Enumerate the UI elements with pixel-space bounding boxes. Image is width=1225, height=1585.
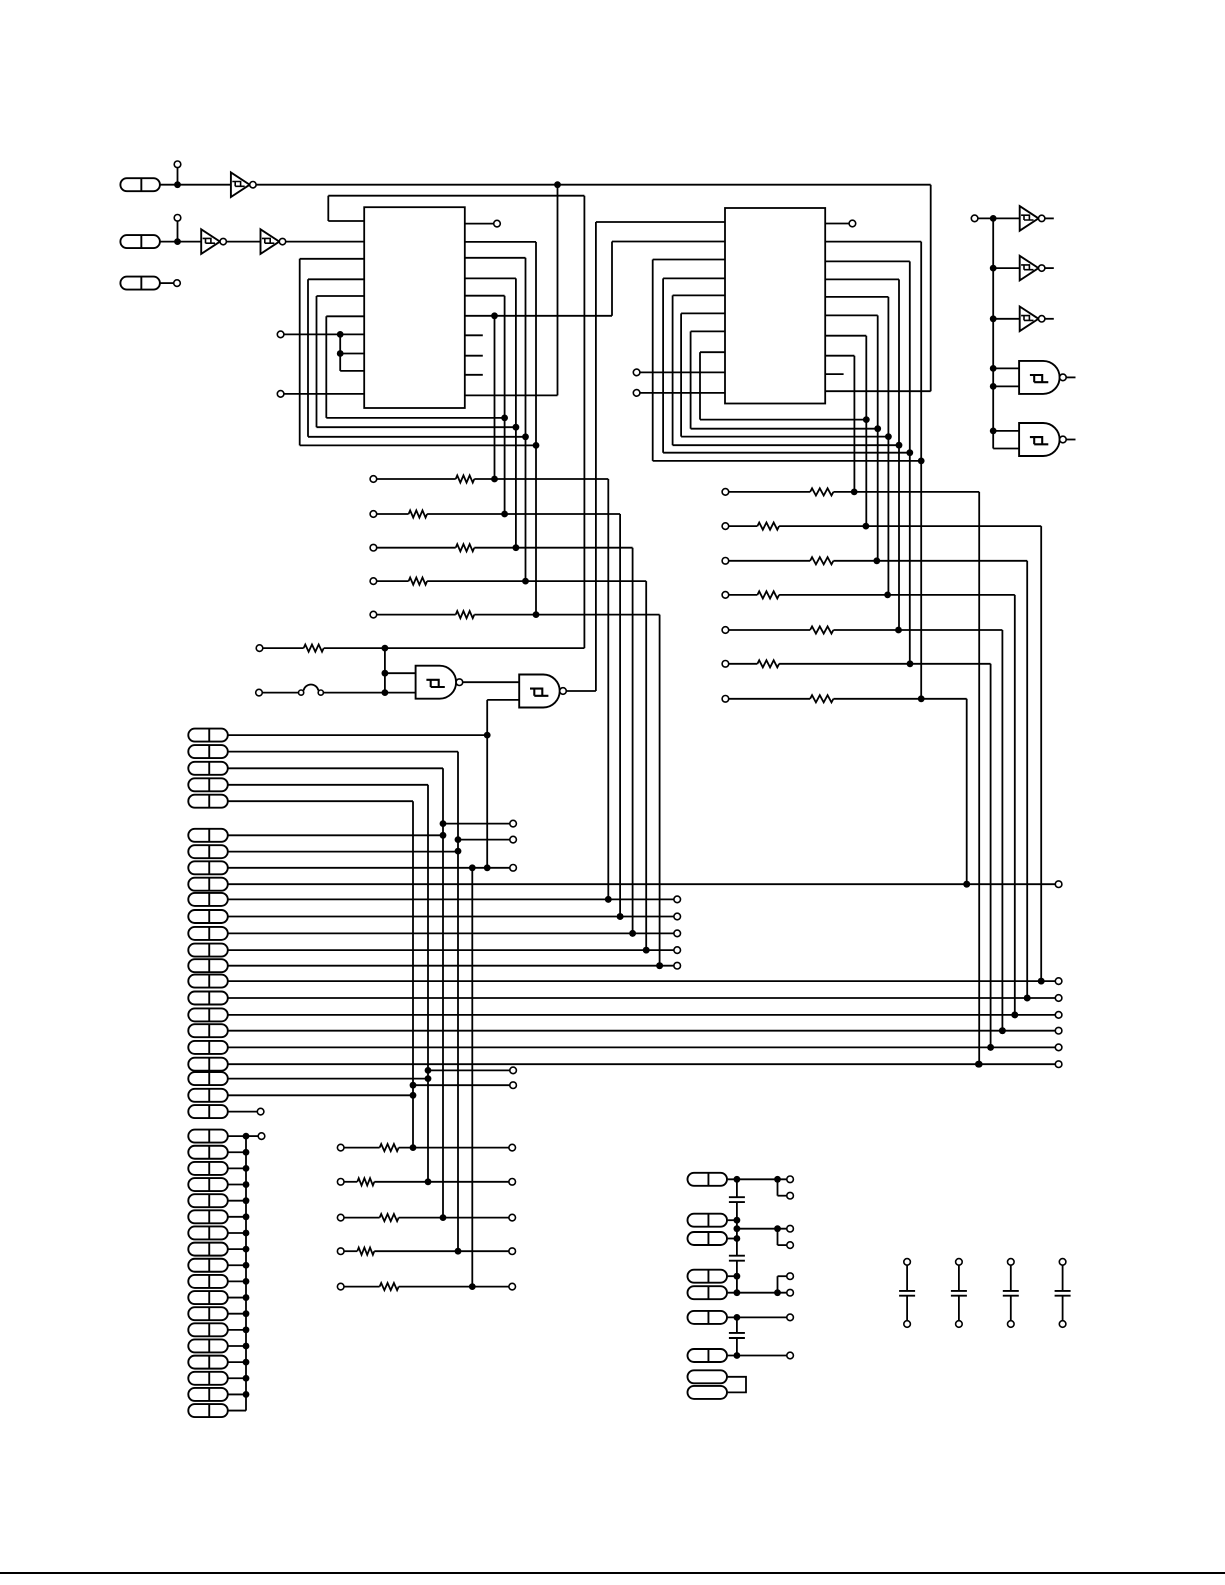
wire pair2 row [737, 1228, 787, 1230]
wire S17 to bus [228, 1393, 246, 1395]
terminal pair1 top [787, 1176, 794, 1183]
wire U1A output net1 top [256, 184, 931, 186]
junction Q3/x472 [469, 864, 476, 871]
wire input to U3A [978, 217, 1020, 219]
junction bus/U4A inA [990, 365, 997, 372]
wire row1 to staircase [474, 478, 608, 480]
wire S1 to bus [228, 1135, 246, 1137]
wire IC2 right pin y241 [825, 241, 921, 243]
wire rrow5 lead-in [729, 629, 810, 631]
junction IC2 loop y460 [918, 458, 925, 465]
wire loop bottom y437 [308, 436, 526, 438]
nand gate U4A [1019, 361, 1060, 394]
connector S12 [188, 1307, 228, 1320]
wire U2A to U2B [226, 241, 260, 243]
terminal stub4 [510, 1067, 517, 1074]
wire rrow4 to staircase [779, 594, 1015, 596]
terminal mid row3 left [337, 1214, 344, 1221]
wire IC1 right pin y242 [465, 241, 536, 243]
terminal left bank row4 [370, 578, 377, 585]
wire net1 branch into IC1 right pin [465, 394, 558, 396]
wire IC2 left pin y295 [673, 294, 725, 296]
terminal mid row2 right [509, 1179, 516, 1186]
connector S10 [188, 1275, 228, 1288]
pin stub IC2 right y374 [825, 373, 843, 375]
capacitor C5 [951, 1290, 967, 1292]
wire input bus x993 [992, 218, 994, 448]
terminal C4 top [904, 1259, 911, 1266]
terminal right y1064 [1055, 1061, 1062, 1068]
wire G2 inputB [487, 699, 519, 701]
junction Q10/staircase [1038, 978, 1045, 985]
wire S7 to bus [228, 1232, 246, 1234]
resistor R7 [810, 488, 833, 495]
junction staircase rrow6 bottom [987, 1044, 994, 1051]
terminal Q18 [257, 1108, 264, 1115]
wire IC2 loop bottom y428 [691, 428, 878, 430]
wire rrow6 lead-in [729, 663, 758, 665]
connector Q13 [188, 1024, 228, 1037]
wire loop bottom y427 [317, 426, 516, 428]
wire staircase x1027 down [1026, 561, 1028, 998]
junction staircase row5 bottom [656, 962, 663, 969]
terminal pair1 bottom [787, 1192, 794, 1199]
wire Q7 to middle terminal [228, 932, 674, 934]
connector S17 [188, 1388, 228, 1401]
junction bus S11 [243, 1294, 250, 1301]
junction y316/bus x494 [491, 312, 498, 319]
connector K1 [688, 1173, 728, 1186]
wire staircase x632 down [632, 548, 634, 934]
wire IC2 loop bottom y419 [700, 419, 866, 421]
wire C7 bottom lead [1062, 1296, 1064, 1321]
wire IC2 right bus x866 [865, 336, 867, 526]
terminal mid row2 left [337, 1179, 344, 1186]
wire J1 to U1A [160, 184, 231, 186]
wire S16 to bus [228, 1377, 246, 1379]
schmitt inverter U3B [1020, 256, 1039, 281]
wire Q16 [228, 1078, 428, 1080]
terminal middle y899 [674, 896, 681, 903]
terminal NAND row B [256, 689, 263, 696]
junction x487/pill row [484, 732, 491, 739]
junction bus S14 [243, 1343, 250, 1350]
junction K5 tap [734, 1289, 741, 1296]
resistor R2 [409, 510, 428, 517]
connector Q6 [188, 910, 228, 923]
wire U3A output stub [1045, 217, 1054, 219]
wire IC2 left loop x690 [690, 331, 692, 428]
nand gate U4B [1019, 423, 1060, 456]
junction bus x494 row1 [491, 476, 498, 483]
wire rrow7 to staircase [833, 698, 966, 700]
connector Q16 [188, 1072, 228, 1085]
junction bus S16 [243, 1375, 250, 1382]
wire capbus seg3 [736, 1239, 738, 1256]
terminal IC1 left A [277, 331, 284, 338]
resistor R15 [357, 1178, 374, 1185]
connector S18 [188, 1404, 228, 1417]
terminal right y1030 [1055, 1027, 1062, 1034]
junction terminalA net2 [337, 350, 344, 357]
connector P2 [188, 745, 228, 758]
connector Q5 [188, 893, 228, 906]
wire U4A inputB [993, 385, 1019, 387]
terminal top right input [971, 215, 978, 222]
wire IC2 right bus x921 [920, 242, 922, 699]
wire S10 to bus [228, 1280, 246, 1282]
terminal C7 bottom [1059, 1321, 1066, 1328]
wire IC1 left pin y279 [308, 278, 364, 280]
connector S8 [188, 1243, 228, 1256]
junction loop/busB [513, 424, 520, 431]
junction x458 mrow4 [455, 1248, 462, 1255]
terminal pair3 top [787, 1273, 794, 1280]
wire Q5 to middle terminal [228, 898, 674, 900]
junction rrow1 bus [851, 489, 858, 496]
terminal IC1 top right [494, 220, 501, 227]
wire net1 into IC2 right pin [825, 390, 931, 392]
wire S5 to bus [228, 1200, 246, 1202]
terminal K6 [787, 1314, 794, 1321]
wire IC2 left loop x700 [699, 352, 701, 419]
junction J1 net [174, 181, 181, 188]
wire loop left inner1 [325, 316, 327, 418]
wire cap3 lead bottom [736, 1338, 738, 1356]
wire IC1 left pin y371 [340, 370, 364, 372]
connector Q2 [188, 845, 228, 858]
wire IC2 right pin y261 [825, 260, 910, 262]
wire terminal to IC2 pin y393 [640, 392, 725, 394]
pin stub IC1 right y356 [465, 355, 483, 357]
terminal right bank row6 [722, 661, 729, 668]
resistor R18 [380, 1283, 399, 1290]
wire S13 to bus [228, 1329, 246, 1331]
connector P1 [188, 729, 228, 742]
wire Q12 long to right terminal [228, 1014, 1056, 1016]
junction K2 tap [734, 1217, 741, 1224]
wire rowA to bus x584 [324, 647, 585, 649]
wire IC2 right pin y296 [825, 296, 888, 298]
wire capbus seg1 [736, 1179, 738, 1197]
junction staircase rrow3 bottom [1024, 995, 1031, 1002]
schmitt inverter U3C [1020, 307, 1039, 332]
junction G1 inputA tap [382, 670, 389, 677]
resistor R6 [304, 645, 324, 652]
junction rrow5 bus [895, 627, 902, 634]
terminal middle y965 [674, 962, 681, 969]
wire S6 to bus [228, 1216, 246, 1218]
terminal left bank row5 [370, 611, 377, 618]
resistor R4 [409, 578, 428, 585]
wire rrow1 to staircase [833, 491, 979, 493]
wire U4B inputA [993, 430, 1019, 432]
wire rrow4 lead-in [729, 594, 758, 596]
junction K3 tap [734, 1235, 741, 1242]
wire bus down x584 [583, 196, 585, 648]
wire Q11 long to right terminal [228, 997, 1056, 999]
wire bus x596 up to IC2 [595, 222, 597, 691]
wire capbus seg2 [736, 1202, 738, 1238]
junction staircase row3 bottom [629, 930, 636, 937]
resistor R12 [757, 660, 779, 667]
junction bus S6 [243, 1213, 250, 1220]
junction x428 mrow2 [425, 1178, 432, 1185]
junction bus x505 row2 [501, 511, 508, 518]
junction x443 stub1 [440, 820, 447, 827]
wire rrow2 lead-in [729, 525, 758, 527]
wire U2B output to IC1 left pin [286, 241, 365, 243]
pin stub IC1 right y375 [465, 374, 483, 376]
fuse F1 [299, 690, 304, 695]
terminal right y884 [1055, 881, 1062, 888]
junction Q9/staircase [656, 962, 663, 969]
wire K3 [728, 1238, 737, 1240]
connector P4 [188, 778, 228, 791]
wire mrow2 to right terminal [374, 1181, 509, 1183]
wire rrow6 to staircase [779, 663, 991, 665]
junction x458 stub2 [455, 836, 462, 843]
wire S9 to bus [228, 1264, 246, 1266]
wire rrow5 to staircase [833, 629, 1002, 631]
wire staircase x646 down [645, 581, 647, 950]
wire S18 to bus [228, 1410, 246, 1412]
wire loop bottom y418 [326, 417, 504, 419]
schmitt inverter U3A [1020, 206, 1039, 231]
junction bus S5 [243, 1197, 250, 1204]
wire J3 stub [160, 282, 174, 284]
connector Q12 [188, 1008, 228, 1021]
wire IC2 right pin y335 [825, 335, 866, 337]
wire IC2 left loop x672 [672, 295, 674, 445]
terminal IC2 top right [849, 220, 856, 227]
junction bus S10 [243, 1278, 250, 1285]
wire stub up J1 [177, 168, 179, 185]
wire IC2 left pin y278 [663, 277, 725, 279]
wire x487 down [486, 700, 488, 868]
terminal pair3 bottom [787, 1289, 794, 1296]
resistor R13 [810, 695, 833, 702]
wire Q15 long to right terminal [228, 1063, 1056, 1065]
wire common bus x246 [245, 1136, 247, 1410]
wire mrow2 lead-in [344, 1181, 357, 1183]
terminal C6 bottom [1008, 1321, 1015, 1328]
wire Q10 long to right terminal [228, 980, 1056, 982]
junction Q8/staircase [643, 947, 650, 954]
wire U3C output stub [1045, 318, 1054, 320]
junction x472 mrow5 [469, 1283, 476, 1290]
wire up x612 to IC2 [611, 242, 613, 316]
wire IC2 right pin y279 [825, 278, 899, 280]
wire S4 to bus [228, 1184, 246, 1186]
junction Q11/staircase [1024, 995, 1031, 1002]
junction x428 stub4 [425, 1067, 432, 1074]
terminal K7 [787, 1352, 794, 1359]
wire K1 row [728, 1178, 787, 1180]
wire stub2 [458, 839, 510, 841]
junction K7/cap3 [734, 1352, 741, 1359]
wire mrow3 to right terminal [399, 1217, 509, 1219]
terminal left bank row3 [370, 544, 377, 551]
terminal above J2 [174, 215, 181, 222]
wire bus x472 down [471, 868, 473, 1287]
terminal right bank row3 [722, 558, 729, 565]
terminal stub2 [510, 836, 517, 843]
terminal mid row5 right [509, 1283, 516, 1290]
junction Q12/staircase [1011, 1012, 1018, 1019]
junction rowB/vertical [382, 689, 389, 696]
wire terminalA to IC1 pin y334 [284, 333, 364, 335]
connector Q9 [188, 959, 228, 972]
wire K7 row [728, 1355, 787, 1357]
wire loop over IC1 top [328, 195, 584, 197]
junction Q6/staircase [617, 913, 624, 920]
connector S2 [188, 1146, 228, 1159]
junction net1/IC1 pin [554, 181, 561, 188]
connector Q10 [188, 975, 228, 988]
junction x413 rowB17 [410, 1092, 417, 1099]
wire Q3 to stub terminal [228, 867, 510, 869]
wire P3 to x443 [228, 767, 443, 769]
terminal middle y916 [674, 913, 681, 920]
terminal IC1 left B [277, 391, 284, 398]
junction x413 stub5 [410, 1082, 417, 1089]
wire bus x525 down [525, 258, 527, 581]
connector J1 [120, 178, 159, 191]
connector K7 [688, 1349, 728, 1362]
wire P1 to x487 [228, 734, 487, 736]
connector S6 [188, 1210, 228, 1223]
wire U4A output stub [1066, 376, 1075, 378]
wire K5 row [728, 1292, 787, 1294]
wire G1 inputA [385, 672, 416, 674]
wire G1 out to G2 inA [463, 681, 520, 683]
terminal stub3 [510, 865, 517, 872]
wire S11 to bus [228, 1297, 246, 1299]
terminal middle y933 [674, 930, 681, 937]
junction rowA/G1 input [382, 645, 389, 652]
connector S5 [188, 1194, 228, 1207]
terminal right y998 [1055, 995, 1062, 1002]
terminal middle y950 [674, 947, 681, 954]
wire pair2 L vertical [777, 1229, 779, 1245]
junction x443 rowB1 [440, 832, 447, 839]
wire IC1 left pin y316 [326, 315, 364, 317]
wire mrow1 lead-in [344, 1147, 380, 1149]
terminal pair2 bottom [787, 1242, 794, 1249]
wire Q14 long to right terminal [228, 1046, 1056, 1048]
terminal mid row1 right [509, 1144, 516, 1151]
wire down to G1 inputs [384, 648, 386, 693]
wire mrow5 lead-in [344, 1286, 380, 1288]
terminal right bank row2 [722, 523, 729, 530]
wire IC2 left pin y331 [691, 330, 725, 332]
connector P5 [188, 795, 228, 808]
wire IC2 loop bottom y452 [663, 452, 910, 454]
wire bus x536 down [535, 242, 537, 615]
junction staircase row2 bottom [617, 913, 624, 920]
wire C7 top lead [1062, 1265, 1064, 1291]
wire mrow4 lead-in [344, 1250, 357, 1252]
junction x428 rowB16 [425, 1075, 432, 1082]
wire IC1 right pin y278 [465, 277, 516, 279]
junction Q5/staircase [605, 896, 612, 903]
wire IC1 left pin y259 [300, 258, 365, 260]
wire stub1 [443, 823, 510, 825]
nand gate G1 [416, 666, 457, 699]
wire rrow3 lead-in [729, 560, 810, 562]
junction bus S2 [243, 1149, 250, 1156]
junction bus S9 [243, 1262, 250, 1269]
junction K1/pair1 [774, 1176, 781, 1183]
junction staircase row1 bottom [605, 896, 612, 903]
wire U4B output stub [1066, 439, 1075, 441]
junction bus x536 row5 [533, 611, 540, 618]
wire IC2 left loop x681 [680, 313, 682, 436]
wire P5 to x413 [228, 800, 413, 802]
connector S7 [188, 1226, 228, 1239]
junction staircase rrow7 bottom [963, 881, 970, 888]
wire stub4 [428, 1069, 510, 1071]
wire row1 lead-in [377, 478, 456, 480]
wire C5 bottom lead [958, 1296, 960, 1321]
wire J2 to U2A [160, 241, 201, 243]
resistor R5 [456, 611, 475, 618]
junction x458 rowB2 [455, 848, 462, 855]
junction K6/cap3 [734, 1314, 741, 1321]
junction K1/capbus [734, 1176, 741, 1183]
connector K3 [688, 1232, 728, 1245]
junction bus/U3C [990, 315, 997, 322]
wire bus x428 down [427, 785, 429, 1182]
connector K2 [688, 1214, 728, 1227]
junction staircase rrow4 bottom [1011, 1012, 1018, 1019]
terminal J3 [174, 280, 181, 287]
terminal mid row3 right [509, 1214, 516, 1221]
wire IC2 left loop x652 [652, 260, 654, 461]
connector Q15 [188, 1058, 228, 1071]
wire row5 to staircase [474, 614, 659, 616]
junction bus S4 [243, 1181, 250, 1188]
wire staircase x979 down [978, 492, 980, 1064]
junction bus S15 [243, 1359, 250, 1366]
connector S9 [188, 1259, 228, 1272]
wire bus x505 down [504, 296, 506, 514]
wire terminalA vertical [339, 334, 341, 371]
wire U3B output stub [1045, 267, 1054, 269]
terminal mid row4 right [509, 1248, 516, 1255]
junction rrow2 bus [863, 523, 870, 530]
wire terminal to IC2 pin y372 [640, 371, 725, 373]
wire rrow2 to staircase [779, 525, 1041, 527]
junction x413 mrow1 [410, 1144, 417, 1151]
wire IC2 right pin y224 stub [825, 223, 849, 225]
wire IC1 right pin y296 [465, 295, 505, 297]
wire IC2 left pin y259 [653, 259, 725, 261]
wire loop left inner3 [307, 279, 309, 437]
junction x443 mrow3 [440, 1214, 447, 1221]
terminal above J1 [174, 161, 181, 168]
terminal stub5 [510, 1082, 517, 1089]
wire Q17 [228, 1094, 413, 1096]
junction bus x516 row3 [513, 544, 520, 551]
resistor R17 [357, 1248, 374, 1255]
wire pair3 L vertical [777, 1276, 779, 1293]
terminal stub1 [510, 820, 517, 827]
wire IC2 loop bottom y436 [681, 436, 888, 438]
wire bus x443 down [442, 768, 444, 1217]
wire rowB to G1 inputB [323, 692, 415, 694]
